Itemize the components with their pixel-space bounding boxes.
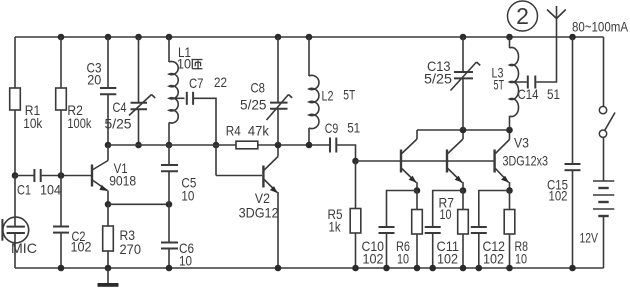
- junction ground rail / C6: [166, 265, 173, 272]
- capacitor C7: [187, 74, 227, 105]
- wire node D down to V2 base: [215, 145, 217, 176]
- svg-text:104: 104: [40, 182, 61, 198]
- svg-text:47k: 47k: [248, 123, 270, 139]
- svg-text:102: 102: [363, 251, 384, 267]
- svg-text:102: 102: [71, 239, 92, 255]
- wire emitter rail to C6: [168, 204, 170, 242]
- wire C6 to ground rail: [168, 249, 170, 269]
- junction tank rail / L2: [306, 142, 313, 149]
- variable capacitor C8: [240, 80, 292, 121]
- svg-text:L2: L2: [322, 88, 334, 104]
- svg-text:10k: 10k: [23, 115, 43, 131]
- junction ground rail / R3: [105, 265, 112, 272]
- svg-text:1k: 1k: [329, 219, 342, 235]
- capacitor C12: [471, 227, 505, 267]
- node C junction (C3/C4 rail/V1 collector): [105, 142, 112, 149]
- wire C13 to collector rail: [462, 78, 464, 130]
- microphone MIC: [2, 217, 37, 256]
- wire top supply rail: [15, 36, 604, 38]
- wire output base rail: [356, 160, 495, 162]
- svg-text:5/25: 5/25: [424, 71, 452, 87]
- svg-text:C7: C7: [189, 75, 204, 91]
- transistor V1: [92, 145, 136, 204]
- svg-text:270: 270: [120, 241, 142, 257]
- svg-text:12V: 12V: [580, 230, 599, 246]
- junction top rail / C13: [460, 34, 467, 41]
- svg-text:C4: C4: [113, 99, 127, 115]
- svg-text:10: 10: [440, 206, 452, 222]
- resistor R4: [226, 123, 270, 149]
- wire C8 to node F: [277, 109, 279, 145]
- wire R7 to ground rail: [462, 234, 464, 268]
- wire battery to ground rail: [603, 216, 605, 268]
- label glyph 匝 (turns): [192, 60, 203, 69]
- junction top rail / L2: [306, 34, 313, 41]
- junction ground rail / R5: [352, 265, 359, 272]
- wire node H to C10 corner: [387, 191, 418, 228]
- wire rail to C15: [572, 37, 574, 164]
- wire C2 to ground rail: [60, 233, 62, 268]
- svg-text:2: 2: [516, 3, 529, 29]
- inductor L3: [492, 47, 519, 116]
- capacitor C10: [362, 227, 395, 267]
- wire C10 to ground rail: [386, 233, 388, 268]
- capacitor C11: [425, 227, 459, 267]
- svg-text:R4: R4: [226, 123, 241, 139]
- wire C15 to ground rail: [572, 170, 574, 268]
- wire node B to C2: [60, 176, 62, 227]
- inductor L2: [309, 75, 356, 128]
- resistor R6: [396, 210, 422, 267]
- svg-text:102: 102: [483, 251, 504, 267]
- wire emitter rail: [108, 203, 169, 205]
- junction collector rail / L3 / V3 unit 3: [506, 127, 513, 134]
- svg-text:20: 20: [87, 72, 101, 88]
- wire R3 to ground rail: [107, 251, 109, 268]
- transistor V2: [239, 145, 279, 268]
- wire rail to C8: [277, 37, 279, 103]
- wire rail to C13: [462, 37, 464, 72]
- wire rail to C4: [138, 37, 140, 103]
- inductor L1: [169, 44, 191, 123]
- variable capacitor C4: [105, 95, 156, 132]
- resistor R3: [103, 226, 141, 257]
- resistor R8: [504, 210, 528, 267]
- wire bottom ground rail: [15, 267, 604, 269]
- capacitor C5: [161, 165, 197, 204]
- junction tank rail / C4: [135, 142, 142, 149]
- resistor R2: [56, 88, 92, 131]
- wire C12 to ground rail: [478, 233, 480, 268]
- wire rail to L1: [168, 37, 170, 62]
- node J junction (V3 e3/R8/C12): [506, 187, 513, 194]
- resistor R5: [328, 206, 361, 235]
- wire R8 to ground rail: [509, 234, 511, 268]
- node B junction (R2/C1/C2/V1 base): [58, 172, 65, 179]
- svg-text:3DG12x3: 3DG12x3: [503, 153, 549, 169]
- wire R6 to ground rail: [416, 234, 418, 268]
- capacitor C6: [161, 240, 194, 269]
- wire C11 to ground rail: [432, 233, 434, 268]
- svg-text:102: 102: [549, 188, 568, 204]
- svg-text:51: 51: [547, 86, 560, 102]
- wire C1 right plate to V1 base (through node B): [42, 175, 91, 177]
- ground: [98, 268, 119, 287]
- svg-text:5T: 5T: [343, 87, 355, 103]
- wire L3 to collector rail: [509, 116, 511, 130]
- wire left column top (rail to R1): [14, 37, 16, 88]
- wire rail to C3: [107, 37, 109, 88]
- svg-text:3DG12: 3DG12: [239, 205, 279, 221]
- junction collector rail / C13 / V3 unit 2: [460, 127, 467, 134]
- svg-text:22: 22: [214, 74, 227, 90]
- wire node I to C11 corner: [433, 191, 463, 228]
- svg-text:102: 102: [437, 251, 458, 267]
- svg-text:10: 10: [177, 56, 191, 72]
- svg-text:9018: 9018: [109, 173, 136, 189]
- svg-text:100k: 100k: [67, 115, 92, 131]
- wire node H to R6: [416, 191, 418, 210]
- svg-text:C1: C1: [17, 182, 31, 198]
- junction top rail / L1: [166, 34, 173, 41]
- capacitor C3: [87, 60, 117, 95]
- node H junction (V3 e1/R6/C10): [414, 187, 421, 194]
- resistor R1: [10, 88, 43, 131]
- wire L2 to tank rail: [308, 128, 310, 145]
- wire L3 tap to C14: [510, 81, 527, 83]
- wire switch to battery: [603, 137, 605, 181]
- junction ground rail / R7: [460, 265, 467, 272]
- node E junction (V1 emitter/R3): [105, 201, 112, 208]
- wire R2 bottom to node B: [60, 110, 62, 176]
- wire C4 to tank rail: [138, 109, 140, 145]
- junction ground rail / C11: [429, 265, 436, 272]
- wire rail to L2: [308, 37, 310, 76]
- svg-text:C8: C8: [251, 80, 266, 96]
- svg-text:10: 10: [397, 251, 409, 267]
- wire node J to C12 corner: [479, 191, 510, 228]
- wire L1 tap to C7: [169, 97, 185, 99]
- wire C5 to emitter rail: [168, 171, 170, 204]
- wire L1 bottom to tank rail: [168, 123, 170, 146]
- transistor V3 unit 2: [447, 130, 463, 191]
- capacitor C9: [325, 120, 361, 153]
- wire R1 bottom to node A: [14, 110, 16, 176]
- svg-text:V3: V3: [514, 135, 529, 151]
- wire microphone to ground rail: [14, 233, 16, 268]
- junction ground rail / C10: [383, 265, 390, 272]
- node D junction (C7/R4/V2 base/tank rail): [213, 142, 220, 149]
- svg-text:51: 51: [347, 120, 360, 136]
- capacitor C2: [53, 227, 92, 255]
- junction ground rail / C2: [58, 265, 65, 272]
- svg-text:5T: 5T: [494, 77, 505, 93]
- node label circled 2: [508, 1, 538, 31]
- wire R5 to ground rail: [355, 233, 357, 268]
- transistor V3 unit 3: [495, 130, 549, 191]
- battery GB 12V: [580, 181, 615, 246]
- junction emitter rail / C5 / C6: [166, 201, 173, 208]
- wire node J to R8: [509, 191, 511, 210]
- wire C3 to node C: [107, 94, 109, 145]
- junction top rail / C8: [275, 34, 282, 41]
- node F junction (tank rail/C8/V2 collector): [275, 142, 282, 149]
- wire node E to R3: [107, 204, 109, 226]
- junction ground rail / R6: [414, 265, 421, 272]
- svg-text:C14: C14: [518, 86, 539, 102]
- wire C14 to antenna column: [536, 19, 556, 83]
- wire C7 to corner down to node D: [194, 98, 216, 145]
- wire output collector rail: [417, 129, 510, 131]
- svg-text:10: 10: [179, 253, 192, 269]
- wire tank rail (node C to R4): [108, 144, 236, 146]
- junction top rail / R2: [58, 34, 65, 41]
- svg-text:C9: C9: [325, 120, 339, 136]
- capacitor C15: [547, 164, 581, 204]
- wire R4 right to C9: [258, 144, 329, 146]
- junction ground rail / R8: [506, 265, 513, 272]
- svg-text:5/25: 5/25: [240, 96, 267, 112]
- junction ground rail / C15: [569, 265, 576, 272]
- wire rail to L3: [509, 37, 511, 48]
- wire rail to R2: [60, 37, 62, 88]
- switch S: [599, 106, 615, 137]
- junction top rail / L3: [506, 34, 513, 41]
- svg-text:10: 10: [181, 188, 194, 204]
- junction ground rail / C12: [476, 265, 483, 272]
- node G junction (C9/R5/output base rail): [352, 158, 359, 165]
- junction tank rail / L1 / C5: [166, 142, 173, 149]
- wire C9 to corner down to output base rail: [337, 145, 355, 161]
- wire node I to R7: [462, 191, 464, 210]
- node A junction (R1/C1/MIC): [12, 172, 19, 179]
- wire top rail right corner down to switch: [603, 37, 605, 107]
- svg-text:80~100mA: 80~100mA: [572, 19, 629, 35]
- junction top rail / C3: [105, 34, 112, 41]
- transistor V3 unit 1: [401, 130, 417, 191]
- capacitor C1: [15, 169, 61, 198]
- capacitor C14: [518, 76, 561, 103]
- variable capacitor C13: [424, 58, 480, 91]
- junction top rail / C4: [135, 34, 142, 41]
- junction top rail / C15: [569, 34, 576, 41]
- svg-text:5/25: 5/25: [105, 116, 132, 132]
- wire tank rail node to C5: [168, 145, 170, 165]
- resistor R7: [439, 195, 469, 235]
- node I junction (V3 e2/R7/C11): [460, 187, 467, 194]
- wire node G to R5: [355, 161, 357, 209]
- junction ground rail / V2 emitter: [275, 265, 282, 272]
- wire node A to microphone: [14, 176, 16, 227]
- svg-text:10: 10: [515, 251, 527, 267]
- antenna: [547, 6, 566, 19]
